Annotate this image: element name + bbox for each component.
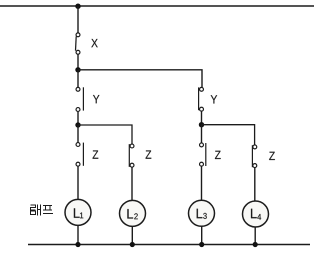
- label Y right: [211, 95, 217, 103]
- wire junction A1 to right branch top: [78, 70, 202, 87]
- label ramp (Korean "lamp") drawn strokes: [31, 204, 54, 215]
- wire junction A2 down to switch Z1: [77, 125, 79, 143]
- lamp L2: [120, 200, 146, 226]
- wire top bus to switch X: [77, 6, 79, 33]
- switch Z3: [200, 143, 206, 166]
- lamp L3: [189, 200, 215, 226]
- wire junction A2 to L2 branch: [78, 125, 132, 144]
- wire top supply bus: [0, 5, 314, 7]
- wire lamp L3 to bottom bus: [201, 226, 203, 244]
- lamp L4: [243, 201, 269, 227]
- wire switch Y right to junction C1: [201, 111, 203, 125]
- node junction A1: [75, 67, 80, 72]
- switch Z2: [129, 144, 134, 167]
- wire switch Y left to junction A2: [77, 112, 79, 126]
- wire switch Z4 to lamp L4: [254, 168, 256, 201]
- wire junction A1 down to switch Y left: [77, 70, 79, 88]
- switch Z4: [252, 145, 256, 168]
- lamp L1: [65, 199, 91, 225]
- switch X: [76, 33, 80, 54]
- wire switch X to junction A1: [77, 54, 79, 70]
- node bottom junction L4: [253, 242, 258, 247]
- node bottom junction L2: [130, 242, 135, 247]
- node top junction: [75, 3, 80, 8]
- wire junction C1 to L4 branch: [202, 125, 255, 145]
- switch Y left: [76, 87, 83, 111]
- node junction C1: [199, 122, 204, 127]
- label Z1: [93, 150, 99, 158]
- node bottom junction L1: [75, 242, 80, 247]
- label Z2: [146, 150, 152, 158]
- wire lamp L4 to bottom bus: [254, 227, 256, 245]
- wire bottom return bus: [28, 244, 310, 246]
- switch Z1: [76, 143, 83, 167]
- wire junction C1 down to switch Z3: [201, 125, 203, 143]
- wire lamp L2 to bottom bus: [131, 226, 133, 244]
- node bottom junction L3: [199, 242, 204, 247]
- wire switch Z1 to lamp L1: [77, 166, 79, 199]
- wire switch Z2 to lamp L2: [131, 167, 133, 200]
- wire lamp L1 to bottom bus: [77, 225, 79, 244]
- label Y left: [93, 95, 99, 103]
- node junction A2: [75, 122, 80, 127]
- label Z4: [269, 152, 275, 160]
- label Z3: [215, 151, 221, 159]
- switch Y right: [199, 87, 204, 111]
- label X: [91, 39, 97, 47]
- wire switch Z3 to lamp L3: [201, 166, 203, 200]
